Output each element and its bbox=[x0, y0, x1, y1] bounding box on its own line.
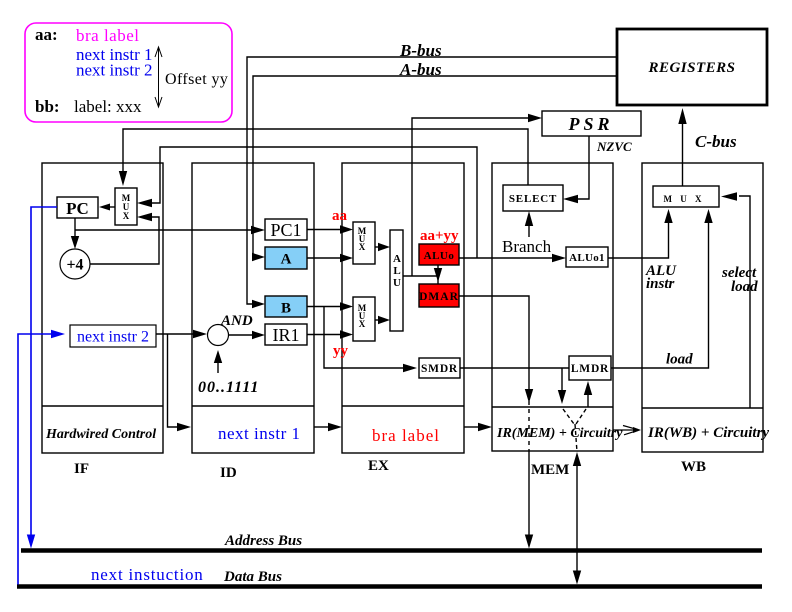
wire branch-to-select bbox=[528, 225, 530, 237]
wire A-bus bbox=[253, 76, 616, 257]
wire mem-to-wb-arrow bbox=[613, 426, 638, 435]
wire pc-down bbox=[74, 218, 76, 237]
arrowhead abus-into-A bbox=[252, 253, 265, 261]
wire select-to-ifmux bbox=[123, 129, 528, 185]
svg-text:instr: instr bbox=[646, 276, 675, 292]
wire pc1-to-mux bbox=[307, 229, 341, 231]
arrowhead blue into nextinstr2 bbox=[51, 330, 65, 338]
wire aluo1-to-wbmux bbox=[608, 221, 669, 258]
wire blue databus-to-nextinstr2 bbox=[18, 334, 52, 585]
svg-text:Branch: Branch bbox=[502, 237, 552, 256]
svg-text:X: X bbox=[123, 211, 130, 221]
arrowhead mux2-to-alu bbox=[378, 316, 390, 324]
arrowhead select-into-muxtop bbox=[119, 171, 127, 186]
arrowhead a-to-mux1 bbox=[340, 254, 353, 262]
wire and-to-ir1 bbox=[229, 334, 255, 336]
arrowhead id-to-ex bbox=[328, 423, 342, 431]
wire mem-dashed-v bbox=[563, 409, 586, 452]
wire mem-to-databus bbox=[576, 464, 578, 572]
MEM stage box bbox=[492, 163, 613, 451]
arrowhead if-to-id bbox=[177, 423, 191, 431]
svg-text:aa:: aa: bbox=[35, 25, 58, 44]
adder +4 bbox=[60, 249, 90, 279]
arrowhead blue into addressbus bbox=[27, 535, 35, 549]
wire nextinstr2-to-and bbox=[156, 333, 196, 335]
wire and-input bbox=[217, 362, 219, 373]
arrowhead into +4 bbox=[71, 236, 79, 249]
arrowhead into psr bbox=[528, 114, 542, 122]
svg-text:M U X: M U X bbox=[664, 194, 705, 204]
arrowhead into PC bbox=[99, 204, 110, 211]
IF stage box bbox=[42, 163, 163, 453]
svg-text:X: X bbox=[359, 319, 366, 329]
svg-text:SMDR: SMDR bbox=[421, 363, 458, 375]
wire branch-target-feedback bbox=[152, 147, 477, 258]
svg-text:ID: ID bbox=[220, 465, 237, 481]
wire select-load bbox=[739, 196, 750, 408]
svg-text:IR1: IR1 bbox=[273, 325, 300, 345]
mux EX upper bbox=[353, 222, 375, 264]
wire mux-to-pc bbox=[109, 206, 115, 208]
wire ir1-to-mux bbox=[307, 334, 341, 336]
wire nzvc bbox=[577, 136, 589, 199]
wire lmdr-to-wbmux bbox=[611, 221, 709, 368]
register DMAR bbox=[419, 284, 459, 307]
svg-text:load: load bbox=[731, 279, 758, 295]
svg-text:IF: IF bbox=[74, 461, 89, 477]
arrowhead ir1-to-mux2 bbox=[340, 330, 353, 338]
svg-text:SELECT: SELECT bbox=[509, 193, 557, 205]
svg-text:bra label: bra label bbox=[372, 426, 440, 445]
register A bbox=[265, 247, 307, 269]
arrowhead aluo-to-dmar bbox=[434, 268, 442, 282]
svg-text:A-bus: A-bus bbox=[399, 60, 442, 79]
legend box (magenta rounded) bbox=[25, 23, 232, 122]
arrowhead smdr-down bbox=[558, 390, 566, 404]
EX mux2 label bbox=[358, 303, 367, 329]
svg-text:ALUo: ALUo bbox=[424, 250, 455, 262]
offset double arrow in legend bbox=[155, 47, 162, 107]
wire dmar-out bbox=[459, 296, 529, 390]
svg-text:L: L bbox=[393, 265, 400, 277]
arrowhead ex-to-mem bbox=[478, 423, 492, 431]
svg-text:AND: AND bbox=[220, 313, 253, 329]
mux IF bbox=[115, 188, 137, 225]
wire if-to-id bbox=[168, 334, 180, 427]
wire c-bus bbox=[682, 122, 684, 186]
register ALUo bbox=[419, 244, 459, 265]
svg-text:PSR: PSR bbox=[567, 114, 613, 134]
arrowhead into smdr bbox=[403, 364, 417, 372]
wire mux1-to-alu bbox=[375, 246, 379, 248]
register PC bbox=[57, 197, 98, 218]
wire blue pc-to-addressbus bbox=[31, 207, 57, 535]
wire smdr-to-mem bbox=[561, 368, 563, 391]
arrowhead into PC1 bbox=[251, 226, 265, 234]
wire smdr-to-lmdr bbox=[460, 367, 569, 369]
arrowhead plus4-to-mux bbox=[137, 213, 152, 221]
arrowhead cbus-to-registers bbox=[678, 108, 686, 124]
arrowhead lmdr-to-wbmux-up bbox=[704, 209, 712, 223]
arrowhead mem-databus-up bbox=[573, 452, 581, 466]
svg-text:PC: PC bbox=[66, 199, 89, 218]
arrowhead aluo1-to-wbmux-up bbox=[664, 209, 672, 223]
svg-text:Data Bus: Data Bus bbox=[223, 569, 282, 585]
register LMDR bbox=[569, 356, 611, 380]
wire ex-to-mem bbox=[464, 426, 479, 428]
wire aluo-to-aluo1 bbox=[459, 257, 553, 259]
arrowhead branch-to-select bbox=[525, 211, 533, 226]
arrowhead dmar-to-addressbus bbox=[525, 535, 533, 549]
svg-text:A: A bbox=[281, 252, 292, 268]
svg-text:B-bus: B-bus bbox=[399, 41, 442, 60]
wire dmar-dashed bbox=[528, 401, 530, 452]
svg-text:00..1111: 00..1111 bbox=[198, 379, 259, 396]
svg-text:NZVC: NZVC bbox=[596, 139, 632, 154]
svg-text:B: B bbox=[281, 301, 291, 317]
svg-text:X: X bbox=[359, 242, 366, 252]
svg-text:REGISTERS: REGISTERS bbox=[647, 60, 735, 76]
gate AND bbox=[208, 325, 229, 346]
arrowhead bbus-into-B bbox=[252, 300, 265, 308]
REGISTERS box bbox=[617, 29, 767, 105]
svg-text:next instr 2: next instr 2 bbox=[76, 61, 153, 80]
svg-text:next instuction: next instuction bbox=[91, 565, 204, 584]
ID stage box bbox=[192, 163, 314, 453]
svg-text:bra label: bra label bbox=[76, 26, 140, 45]
wire aluo-to-dmar bbox=[437, 265, 439, 284]
EX stage box bbox=[342, 163, 464, 453]
svg-text:Offset yy: Offset yy bbox=[165, 71, 228, 88]
svg-text:label: xxx: label: xxx bbox=[74, 97, 142, 116]
arrowhead b-to-mux2 bbox=[340, 302, 353, 310]
wire id-to-ex bbox=[314, 426, 330, 428]
PSR box bbox=[542, 111, 641, 136]
arrowhead feedback-to-mux bbox=[137, 199, 152, 207]
arrowhead mem-to-lmdr-up bbox=[584, 381, 592, 395]
svg-text:A: A bbox=[393, 253, 401, 265]
SELECT box bbox=[503, 185, 563, 211]
wire a-to-mux bbox=[307, 257, 341, 259]
register PC1 bbox=[265, 219, 307, 240]
arrowhead mem-databus-down bbox=[573, 571, 581, 585]
arrowhead mem-to-wb tip bbox=[633, 427, 641, 433]
svg-text:DMAR: DMAR bbox=[419, 291, 459, 303]
svg-text:C-bus: C-bus bbox=[695, 132, 737, 151]
svg-text:yy: yy bbox=[333, 343, 349, 359]
arrowhead into AND bbox=[193, 330, 207, 338]
svg-text:next instr 1: next instr 1 bbox=[218, 424, 301, 443]
arrowhead aluo-to-aluo1 bbox=[552, 254, 566, 262]
svg-text:next instr 2: next instr 2 bbox=[77, 329, 149, 346]
svg-text:load: load bbox=[666, 352, 693, 368]
svg-text:bb:: bb: bbox=[35, 97, 60, 116]
register ALUo1 bbox=[566, 247, 608, 267]
bus Address bbox=[21, 548, 762, 552]
next instr 2 box bbox=[70, 325, 156, 347]
svg-text:MEM: MEM bbox=[531, 462, 569, 478]
ALU box bbox=[390, 230, 403, 331]
wire b-to-mux bbox=[307, 306, 341, 308]
arrowhead and-input-up bbox=[214, 350, 222, 363]
svg-text:ALUo1: ALUo1 bbox=[569, 252, 605, 264]
wire mem-to-lmdr bbox=[587, 394, 589, 407]
wire dmar-to-addressbus bbox=[528, 452, 530, 536]
arrowhead dmar-down bbox=[525, 389, 533, 403]
wire B-bus bbox=[247, 57, 616, 304]
wire alu-to-psr bbox=[412, 118, 530, 276]
svg-text:U: U bbox=[393, 277, 401, 289]
bus Data bbox=[17, 584, 762, 588]
svg-text:PC1: PC1 bbox=[270, 220, 301, 240]
register SMDR bbox=[419, 358, 460, 378]
arrowhead pc1-to-mux1 bbox=[340, 225, 353, 233]
svg-text:WB: WB bbox=[681, 459, 706, 475]
wire mux2-to-alu bbox=[375, 319, 379, 321]
svg-text:Address Bus: Address Bus bbox=[224, 533, 302, 549]
WB stage box bbox=[642, 163, 763, 452]
EX mux1 label bbox=[358, 226, 367, 252]
svg-text:aa+yy: aa+yy bbox=[420, 228, 459, 244]
wire pc-to-pc1 bbox=[75, 229, 253, 231]
svg-text:+4: +4 bbox=[66, 257, 83, 274]
arrowhead mux1-to-alu bbox=[378, 243, 390, 251]
svg-text:IR(MEM) + Circuitry: IR(MEM) + Circuitry bbox=[496, 426, 623, 441]
wire alu-out bbox=[403, 275, 438, 277]
wire b-to-smdr bbox=[324, 307, 405, 369]
svg-text:aa: aa bbox=[332, 208, 348, 224]
mux WB bbox=[653, 186, 719, 207]
IF mux label bbox=[122, 193, 131, 221]
svg-text:EX: EX bbox=[368, 458, 389, 474]
arrowhead and-to-ir1 bbox=[252, 331, 265, 339]
arrowhead select-into-wbmux bbox=[721, 192, 737, 200]
wire plus4-out bbox=[90, 217, 159, 264]
register IR1 bbox=[265, 324, 307, 345]
mux EX lower bbox=[353, 297, 375, 341]
arrowhead nzvc-into-select bbox=[563, 195, 578, 203]
svg-text:LMDR: LMDR bbox=[571, 363, 609, 375]
ALU label bbox=[393, 253, 401, 289]
register B bbox=[265, 296, 307, 317]
svg-text:IR(WB) + Circuitry: IR(WB) + Circuitry bbox=[647, 425, 769, 441]
svg-text:Hardwired Control: Hardwired Control bbox=[45, 427, 156, 442]
